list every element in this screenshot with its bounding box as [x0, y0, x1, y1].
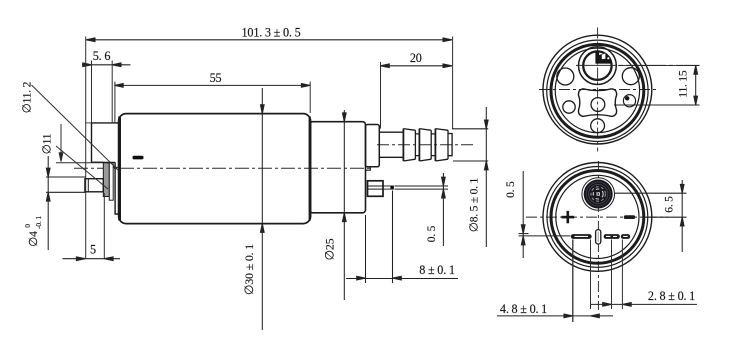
commutator coil feature	[582, 178, 615, 211]
svg-text:11. 15: 11. 15	[678, 70, 690, 98]
dimension 11.15	[614, 65, 700, 105]
terminal block	[368, 181, 384, 197]
dimension 0.5 slot	[519, 171, 571, 258]
pump main body	[119, 114, 311, 224]
svg-text:8 ± 0. 1: 8 ± 0. 1	[419, 263, 455, 277]
right terminal slot A	[604, 234, 620, 239]
inlet tube	[85, 179, 103, 192]
port centerline	[576, 64, 700, 66]
dimension 55	[114, 84, 310, 88]
svg-text:20: 20	[410, 51, 422, 65]
center hole	[591, 98, 605, 112]
top view outer rim circles	[543, 35, 652, 144]
bottom view outer rim circles	[543, 163, 652, 272]
svg-text:∅11: ∅11	[42, 133, 54, 154]
dimension 5	[63, 257, 121, 261]
terminal pin	[383, 186, 394, 190]
right terminal slot B	[621, 234, 630, 239]
outlet port key mark (black)	[595, 51, 611, 64]
wire: main centerline of side view	[74, 167, 373, 169]
left end cap	[86, 123, 119, 214]
svg-text:∅30 ± 0. 1: ∅30 ± 0. 1	[242, 244, 256, 295]
svg-text:0. 5: 0. 5	[505, 181, 517, 198]
dimension 20	[381, 64, 452, 68]
extension lines top	[86, 37, 453, 259]
dimension 0.5 pin	[395, 173, 449, 246]
center vertical slot	[596, 230, 601, 244]
svg-text:6. 5: 6. 5	[664, 196, 676, 213]
left terminal slot	[571, 234, 592, 239]
right small slot	[624, 215, 635, 219]
dimension 101.3±0.5	[86, 38, 452, 42]
svg-text:∅8. 5 ± 0. 1: ∅8. 5 ± 0. 1	[469, 177, 481, 232]
inlet washer (hatched)	[103, 163, 113, 200]
svg-text:2. 8 ± 0. 1: 2. 8 ± 0. 1	[648, 289, 695, 303]
outlet boss	[366, 125, 380, 171]
lower-left hole	[563, 101, 575, 113]
extension lines bottom view	[573, 240, 623, 323]
dimension 5.6	[82, 63, 131, 67]
small hole with pin dot	[623, 95, 635, 107]
svg-text:0. 5: 0. 5	[426, 225, 438, 242]
svg-text:4. 8 ± 0. 1: 4. 8 ± 0. 1	[500, 302, 547, 316]
dimension Φ8.5±0.1	[452, 107, 488, 247]
svg-text:∅11. 2: ∅11. 2	[22, 81, 34, 113]
svg-text:5. 6: 5. 6	[93, 49, 111, 63]
body slot mark	[133, 156, 144, 160]
left hole	[557, 68, 574, 85]
outlet port circle	[579, 47, 617, 85]
svg-text:101. 3 ± 0. 5: 101. 3 ± 0. 5	[242, 26, 301, 40]
wire: outlet centerline	[377, 144, 473, 146]
outlet neck	[379, 132, 403, 157]
svg-text:5: 5	[90, 243, 96, 257]
dimension Φ30±0.1	[260, 88, 264, 330]
dimension 2.8±0.1	[590, 303, 697, 307]
dimension leader Φ11	[56, 146, 108, 189]
right hole	[622, 68, 639, 85]
top view crosshair centerlines	[539, 28, 657, 152]
svg-text:-0. 1: -0. 1	[34, 216, 43, 229]
svg-text:0: 0	[23, 224, 32, 228]
dimension Φ4 -0.1	[46, 156, 86, 250]
plus polarity mark	[562, 211, 575, 223]
svg-text:∅4: ∅4	[28, 231, 40, 247]
dimension 8±0.1	[346, 191, 458, 284]
pump second section	[310, 122, 366, 213]
bottom hole	[591, 119, 605, 133]
svg-text:55: 55	[210, 71, 222, 85]
hose barb	[403, 129, 452, 161]
bottom view centerlines	[526, 161, 668, 310]
dimension leader Φ11.2	[32, 85, 119, 170]
dimension Φ25	[342, 110, 346, 300]
center pinched square boss	[578, 89, 616, 117]
dimension 6.5	[614, 180, 687, 252]
dimension 4.8±0.1	[497, 314, 613, 318]
svg-text:∅25: ∅25	[323, 238, 337, 260]
